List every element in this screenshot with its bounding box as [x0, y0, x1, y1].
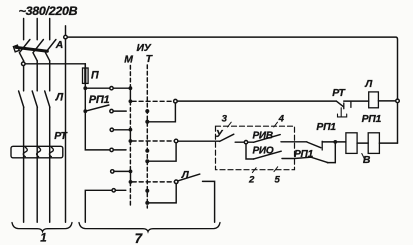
- switch A blade pole1: [19, 40, 30, 61]
- dashed M seg2: [129, 101, 131, 129]
- tick 3: [228, 122, 232, 127]
- junction dot M R5: [129, 170, 133, 174]
- thermal relay RT box: [11, 146, 63, 158]
- svg-text:Л: Л: [55, 92, 64, 104]
- svg-text:3: 3: [222, 113, 228, 124]
- switch A bar: [16, 47, 47, 51]
- wire U fixed: [235, 141, 244, 143]
- contact L blade mid: [178, 174, 200, 181]
- wire out1 long: [177, 100, 336, 102]
- terminal circle box junction: [244, 141, 247, 144]
- dashed wire out1: [132, 100, 174, 102]
- svg-text:А: А: [55, 40, 63, 51]
- wire to junction: [322, 141, 346, 143]
- RT reset symbol: [338, 108, 347, 117]
- junction dot M out2: [129, 139, 133, 143]
- contact RP1 blade: [85, 105, 109, 111]
- wire rail to fuse: [25, 64, 85, 68]
- coil RP1: [346, 133, 357, 154]
- dashed wire out2: [132, 140, 174, 142]
- svg-text:РП1: РП1: [89, 94, 110, 106]
- junction dot R1: [83, 86, 87, 90]
- tick 5: [274, 167, 278, 172]
- wire R1 to M: [113, 87, 130, 89]
- contact RT tick2: [350, 102, 352, 108]
- wire R4: [113, 149, 126, 151]
- terminal circle R1: [110, 87, 113, 90]
- coil L: [369, 92, 379, 108]
- wire M solid seg3: [130, 171, 132, 182]
- contact RIO blade: [254, 151, 282, 159]
- dashed box IU unit: [216, 126, 295, 170]
- phase line 3 top: [49, 19, 51, 40]
- wire to RIO blade: [246, 144, 254, 159]
- phase line 3 lower: [49, 107, 51, 222]
- svg-text:РП1: РП1: [316, 122, 336, 133]
- svg-text:В: В: [363, 155, 371, 166]
- phase line 3 mid: [49, 61, 51, 91]
- svg-text:ИУ: ИУ: [137, 43, 152, 54]
- switch A blade pole3: [46, 40, 56, 61]
- svg-text:М: М: [124, 55, 133, 66]
- switch A blade pole2: [33, 40, 43, 61]
- wire RP1 row: [113, 110, 126, 112]
- phase line 2 mid: [36, 61, 38, 91]
- wire R3 to M: [114, 129, 131, 131]
- wire M solid seg1: [129, 87, 131, 101]
- svg-text:РП1: РП1: [362, 114, 382, 125]
- junction dot T R4: [145, 149, 149, 153]
- svg-text:4: 4: [278, 113, 285, 124]
- junction dot M R3: [129, 128, 133, 132]
- contact U blade: [220, 134, 234, 141]
- brace group 1: [12, 223, 72, 232]
- terminal circle out3: [174, 180, 178, 184]
- wire RT to coil L: [344, 100, 369, 102]
- wire M solid seg2: [129, 129, 131, 141]
- contactor L blade pole3: [45, 91, 50, 107]
- RT element 3: [49, 147, 53, 156]
- contact RT tick1: [343, 103, 345, 109]
- terminal circle out2: [174, 139, 178, 143]
- control bus: [85, 64, 110, 150]
- wire coil V to rail: [379, 142, 397, 144]
- junction dot M R1: [129, 86, 133, 90]
- terminal circle R5: [111, 170, 114, 173]
- phase line 1 lower: [23, 107, 25, 222]
- riser out3 to T: [149, 184, 176, 203]
- RT element 2: [37, 147, 41, 156]
- wire R6: [115, 189, 125, 191]
- fuse P inner wire: [84, 69, 86, 83]
- fuse P: [83, 68, 89, 83]
- contact RP1h blade: [307, 142, 321, 148]
- riser out1 to T: [149, 103, 175, 122]
- wire between coils: [357, 142, 368, 144]
- contactor L blade pole2: [32, 91, 37, 107]
- contactor L blade pole1: [19, 91, 24, 107]
- svg-text:2: 2: [248, 174, 255, 185]
- junction dot coils: [333, 140, 337, 144]
- phase line 2 top: [36, 19, 38, 40]
- tick V: [362, 154, 365, 160]
- node circle on phase1: [22, 62, 26, 66]
- terminal circle R3: [110, 128, 113, 131]
- svg-text:РТ: РТ: [332, 88, 346, 99]
- top rail: [67, 37, 397, 143]
- wire to RIV blade: [248, 141, 254, 143]
- wire R1: [85, 87, 110, 89]
- junction dot T out3: [145, 201, 149, 205]
- terminal circle R6: [112, 189, 115, 192]
- contact RT blade: [336, 101, 343, 107]
- terminal circle rail: [396, 99, 400, 103]
- phase line 1 mid: [23, 61, 25, 91]
- wire out2 to box: [178, 140, 220, 142]
- RT element 1: [23, 147, 27, 156]
- dashed M seg3: [129, 141, 131, 171]
- phase line 2 lower: [36, 107, 38, 222]
- terminal circle R4: [110, 148, 113, 151]
- svg-text:РП1: РП1: [294, 149, 314, 160]
- phase line 1 top: [23, 19, 25, 40]
- dashed line M: [129, 66, 131, 88]
- dashed line T: [146, 65, 148, 208]
- terminal circle RP1: [110, 109, 113, 112]
- svg-text:~380/220В: ~380/220В: [19, 4, 78, 18]
- contact RP1 vertical blade: [327, 142, 335, 163]
- wire RIO out: [282, 157, 328, 162]
- riser out2 to T: [149, 143, 176, 161]
- junction dot T out1: [145, 120, 149, 124]
- junction dot RP1: [83, 109, 87, 113]
- neutral line 4: [65, 26, 67, 223]
- tick 2: [252, 168, 256, 173]
- wire RIV out: [281, 141, 307, 143]
- terminal circle out1: [174, 99, 178, 103]
- junction dot T R6: [145, 189, 149, 193]
- svg-text:РТ: РТ: [54, 131, 68, 142]
- svg-text:1: 1: [40, 232, 46, 245]
- wire L contact out: [203, 181, 215, 222]
- tick 4: [274, 122, 278, 127]
- wire coil L to rail: [378, 100, 395, 102]
- switch A handle: [13, 45, 19, 52]
- svg-text:7: 7: [135, 231, 143, 245]
- svg-text:Л: Л: [364, 79, 373, 90]
- contact RIV blade: [254, 135, 281, 143]
- junction dot M out1: [129, 99, 133, 103]
- coil V: [368, 133, 379, 154]
- junction dot T out2: [145, 159, 149, 163]
- contact RP1h tick: [321, 141, 323, 150]
- dashed M seg4: [129, 182, 131, 207]
- brace group 7: [79, 223, 220, 232]
- junction dot T R2: [145, 109, 149, 113]
- svg-text:П: П: [91, 69, 99, 81]
- node circle line4: [64, 35, 68, 39]
- dashed wire out3: [132, 181, 174, 183]
- wire R6 riser: [85, 190, 112, 222]
- junction dot M out3: [129, 180, 133, 184]
- wire R5 to M: [114, 170, 131, 172]
